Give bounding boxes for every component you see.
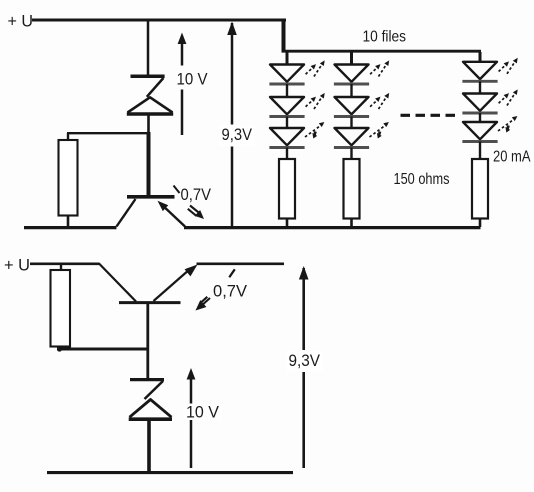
svg-text:20 mA: 20 mA xyxy=(493,149,531,166)
svg-text:150 ohms: 150 ohms xyxy=(394,171,450,188)
svg-text:0,7V: 0,7V xyxy=(213,282,248,301)
svg-text:9,3V: 9,3V xyxy=(289,351,321,370)
svg-text:10 V: 10 V xyxy=(177,69,209,88)
svg-text:0,7V: 0,7V xyxy=(181,185,212,204)
svg-text:10 V: 10 V xyxy=(186,402,220,421)
svg-text:+ U: + U xyxy=(8,11,34,30)
svg-text:+ U: + U xyxy=(4,255,30,274)
svg-text:10 files: 10 files xyxy=(363,29,407,46)
svg-text:9,3V: 9,3V xyxy=(222,125,253,144)
